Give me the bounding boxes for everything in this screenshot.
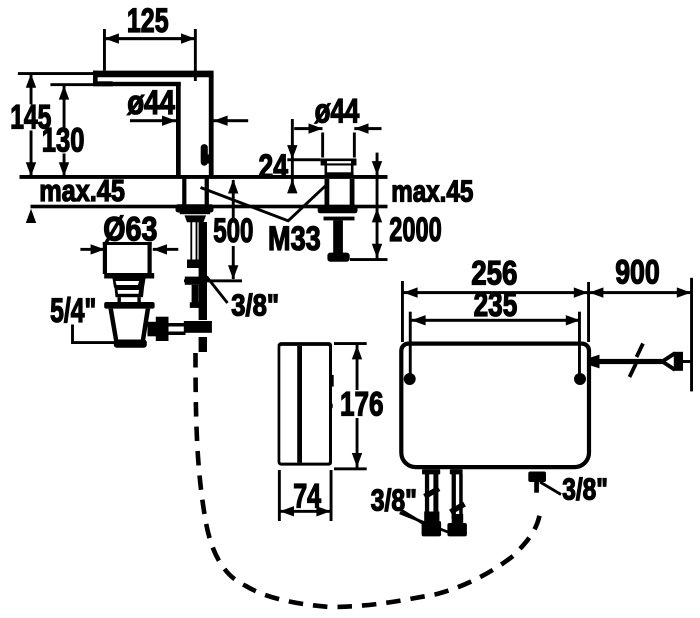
hose A top block — [422, 469, 440, 474]
dim 125 line — [104, 37, 195, 40]
drain cup top line — [103, 242, 152, 245]
hose A line right — [433, 474, 438, 514]
dim o44 faucet arrow left — [162, 116, 176, 126]
dim 145 line lower — [30, 131, 33, 177]
dim 125 extension line left — [103, 29, 106, 71]
hose thin foot — [190, 302, 201, 308]
svg-text:24: 24 — [259, 148, 289, 186]
dim 176 line lower — [356, 418, 359, 468]
drain tailpiece right edge — [141, 309, 151, 341]
dim o44 unit ext left — [321, 133, 324, 158]
dim 24 tick — [287, 158, 320, 161]
hose thick supply — [199, 222, 207, 320]
unit washer plate — [324, 217, 355, 221]
countertop top line — [20, 175, 388, 179]
svg-text:900: 900 — [615, 254, 660, 292]
drain neck band2 — [115, 288, 145, 298]
unit cap side right — [351, 166, 354, 174]
dim 24 arrow up — [287, 179, 297, 193]
unit stem — [333, 220, 343, 253]
power cable connector — [589, 355, 600, 369]
dim O63 arrow right — [153, 244, 167, 254]
dim 145 top tick — [18, 72, 94, 75]
hose thick connector — [184, 321, 212, 333]
drain nut bar — [104, 302, 154, 309]
unit top cap slot — [327, 161, 351, 163]
hose thin connector — [187, 260, 200, 269]
dim 500 arrow down — [228, 265, 238, 279]
dim 130 line lower — [63, 154, 66, 177]
hose A nut lower — [422, 521, 442, 536]
svg-text:125: 125 — [127, 2, 169, 40]
dim 145 line upper — [30, 73, 33, 104]
cable break slash 1 — [637, 344, 644, 358]
unit nut — [318, 205, 358, 213]
dim 74 ext right — [330, 470, 333, 521]
dim 500 arrow up — [228, 179, 238, 193]
drain outlet pipe top line — [169, 323, 186, 327]
plug stub — [683, 360, 691, 363]
dim 130 line upper — [63, 85, 66, 128]
svg-text:176: 176 — [340, 385, 384, 423]
dim o44 unit ext right — [353, 133, 356, 158]
dim 176 bottom tick — [334, 467, 367, 470]
drain tailpiece left edge — [108, 309, 118, 341]
drain cup left edge — [103, 242, 107, 274]
shank washer line — [180, 212, 210, 214]
hose A kink tick — [425, 489, 440, 497]
spout left end cap — [93, 71, 98, 86]
hose B nut upper — [452, 514, 464, 523]
dim O63 line left — [80, 248, 105, 251]
dim 176 arrow down — [352, 453, 362, 467]
hose thin lower stem — [192, 285, 199, 303]
faucet body left edge — [176, 84, 181, 177]
screw left — [404, 373, 416, 385]
FAUCET — [10, 2, 387, 352]
svg-text:74: 74 — [293, 477, 321, 515]
dim o44 unit arrow left — [309, 123, 323, 133]
unit foot — [327, 253, 349, 262]
max.45 left below arrow tail — [30, 216, 33, 222]
dim 125 arrow left — [105, 33, 119, 43]
leader 5/4 line — [73, 325, 118, 343]
hose thin left line — [190, 222, 192, 260]
sensor window bridge — [206, 154, 211, 163]
unit top cap — [321, 159, 357, 166]
dim 256 arrow left — [403, 287, 417, 297]
dim 500 line lower — [232, 246, 235, 279]
svg-text:3/8": 3/8" — [231, 288, 279, 323]
BOX — [196, 254, 694, 607]
spout underside line — [97, 82, 181, 86]
svg-text:3/8": 3/8" — [562, 472, 608, 507]
dim 176 top tick — [334, 342, 367, 345]
svg-text:130: 130 — [42, 122, 85, 160]
leader 3/8 faucet — [207, 277, 228, 304]
dim 2000 arrow down — [372, 244, 382, 258]
dim right vertical line — [376, 153, 379, 259]
dim 235 line — [411, 319, 581, 322]
leader M33 lines — [201, 185, 327, 221]
drain outlet pipe bottom line — [169, 332, 186, 336]
dim 176 arrow up — [352, 345, 362, 359]
hose thin right line — [196, 222, 198, 260]
drain neck band1 — [113, 279, 146, 288]
drain cup right edge — [148, 242, 152, 274]
drain flange — [104, 273, 154, 279]
battery box clip small — [329, 404, 333, 409]
dim 256 line — [403, 291, 589, 294]
dim max45 arrow up — [372, 208, 382, 222]
dim 74 ext left — [278, 470, 281, 521]
unit body right edge — [350, 179, 355, 206]
svg-text:5/4": 5/4" — [50, 292, 96, 330]
hose B line right — [459, 474, 463, 519]
svg-text:max.45: max.45 — [39, 173, 125, 208]
unit cap lower band — [325, 172, 354, 176]
shank right edge — [205, 178, 209, 206]
dim 74 arrow right — [316, 506, 330, 516]
shank nut — [176, 204, 214, 212]
plug body — [674, 352, 683, 371]
dim 500 tick — [184, 279, 242, 282]
dim 235 ext left — [409, 312, 412, 375]
dim 256/900 shared ext — [587, 282, 590, 342]
cable break slash 2 — [630, 364, 637, 378]
battery box outline — [278, 342, 332, 466]
nipple right stem — [534, 482, 539, 493]
dim 235 arrow right — [566, 315, 580, 325]
hose A line left — [425, 474, 429, 514]
dim 256 ext left — [401, 281, 404, 342]
control box outline — [401, 344, 589, 468]
unit cap side left — [325, 166, 328, 174]
sensor window — [201, 144, 208, 166]
countertop bottom line — [31, 205, 388, 209]
sensor cable dashed curve — [196, 353, 541, 607]
drain outlet block — [156, 317, 169, 341]
shank taper — [185, 215, 207, 222]
screw right — [574, 373, 586, 385]
drain neck collar — [116, 294, 144, 297]
leader 3/8 hose A — [400, 509, 425, 524]
dim o44 faucet line right — [213, 119, 248, 122]
dim 900 line — [589, 291, 692, 294]
faucet body right edge — [209, 71, 214, 178]
dim 145 arrow down — [26, 162, 36, 176]
dim 130 arrow up — [59, 85, 69, 99]
spout outlet — [93, 81, 113, 86]
svg-text:ø44: ø44 — [315, 92, 360, 130]
drain neck narrow right — [137, 297, 140, 302]
battery box clip — [329, 375, 334, 387]
dim o44 faucet arrow right — [213, 116, 227, 126]
leader 3/8 right — [540, 482, 561, 495]
dim 900 ext right — [690, 278, 693, 392]
dim 500 line upper — [232, 180, 235, 218]
drain outlet stub — [148, 322, 157, 337]
dim o44 unit line right — [354, 127, 381, 130]
dim 74 line — [279, 510, 331, 513]
hose B line left — [452, 474, 456, 519]
battery box inner line — [297, 346, 302, 463]
dim 24 arrow down — [287, 145, 297, 159]
dim max45 arrow down — [372, 161, 382, 175]
dim O63 line right — [153, 248, 179, 251]
dim 900 arrow left — [589, 287, 603, 297]
svg-text:3/8": 3/8" — [371, 483, 417, 518]
dim 900 arrow right — [677, 287, 691, 297]
drain bottom cap — [114, 340, 147, 348]
power cable — [589, 359, 662, 364]
dim 2000 bottom tick — [350, 258, 388, 261]
hose thick lower — [199, 337, 207, 352]
dim o44 unit arrow right — [354, 123, 368, 133]
svg-text:2000: 2000 — [389, 211, 442, 249]
drain neck narrow left — [118, 297, 121, 302]
dim 130 arrow down — [59, 162, 69, 176]
dim 235 arrow left — [411, 315, 425, 325]
leader 3/8 hose B — [400, 513, 452, 534]
shank left edge — [182, 178, 186, 206]
dim 125 arrow right — [181, 33, 195, 43]
dim 130 tick (underside extension) — [50, 83, 97, 86]
dim o44 faucet line left — [130, 119, 176, 122]
dim 24 vertical line — [291, 119, 294, 193]
svg-text:ø44: ø44 — [127, 84, 175, 122]
max.45 left below arrow — [26, 209, 36, 223]
hose B nut lower — [447, 523, 467, 536]
svg-text:max.45: max.45 — [391, 174, 473, 209]
spout top bar — [93, 71, 214, 78]
hose B kink tick — [451, 504, 465, 512]
dim 145 arrow up — [26, 74, 36, 88]
hose B top block — [450, 469, 463, 474]
dim 125 extension line right — [194, 29, 197, 81]
dim 256 arrow right — [574, 287, 588, 297]
unit body left edge — [325, 179, 330, 206]
dim 176 line upper — [356, 344, 359, 390]
dim 235 ext right — [578, 312, 581, 375]
nipple right block — [528, 472, 546, 483]
plug cone — [662, 353, 675, 370]
svg-text:500: 500 — [213, 212, 253, 250]
hose A nut upper — [424, 512, 439, 522]
SHANK-UNIT — [259, 92, 474, 262]
svg-text:M33: M33 — [268, 220, 321, 258]
hose thin end nut — [185, 277, 202, 285]
dim O63 arrow left — [91, 244, 105, 254]
dim o44 unit line left — [294, 127, 322, 130]
dim 74 arrow left — [280, 506, 294, 516]
